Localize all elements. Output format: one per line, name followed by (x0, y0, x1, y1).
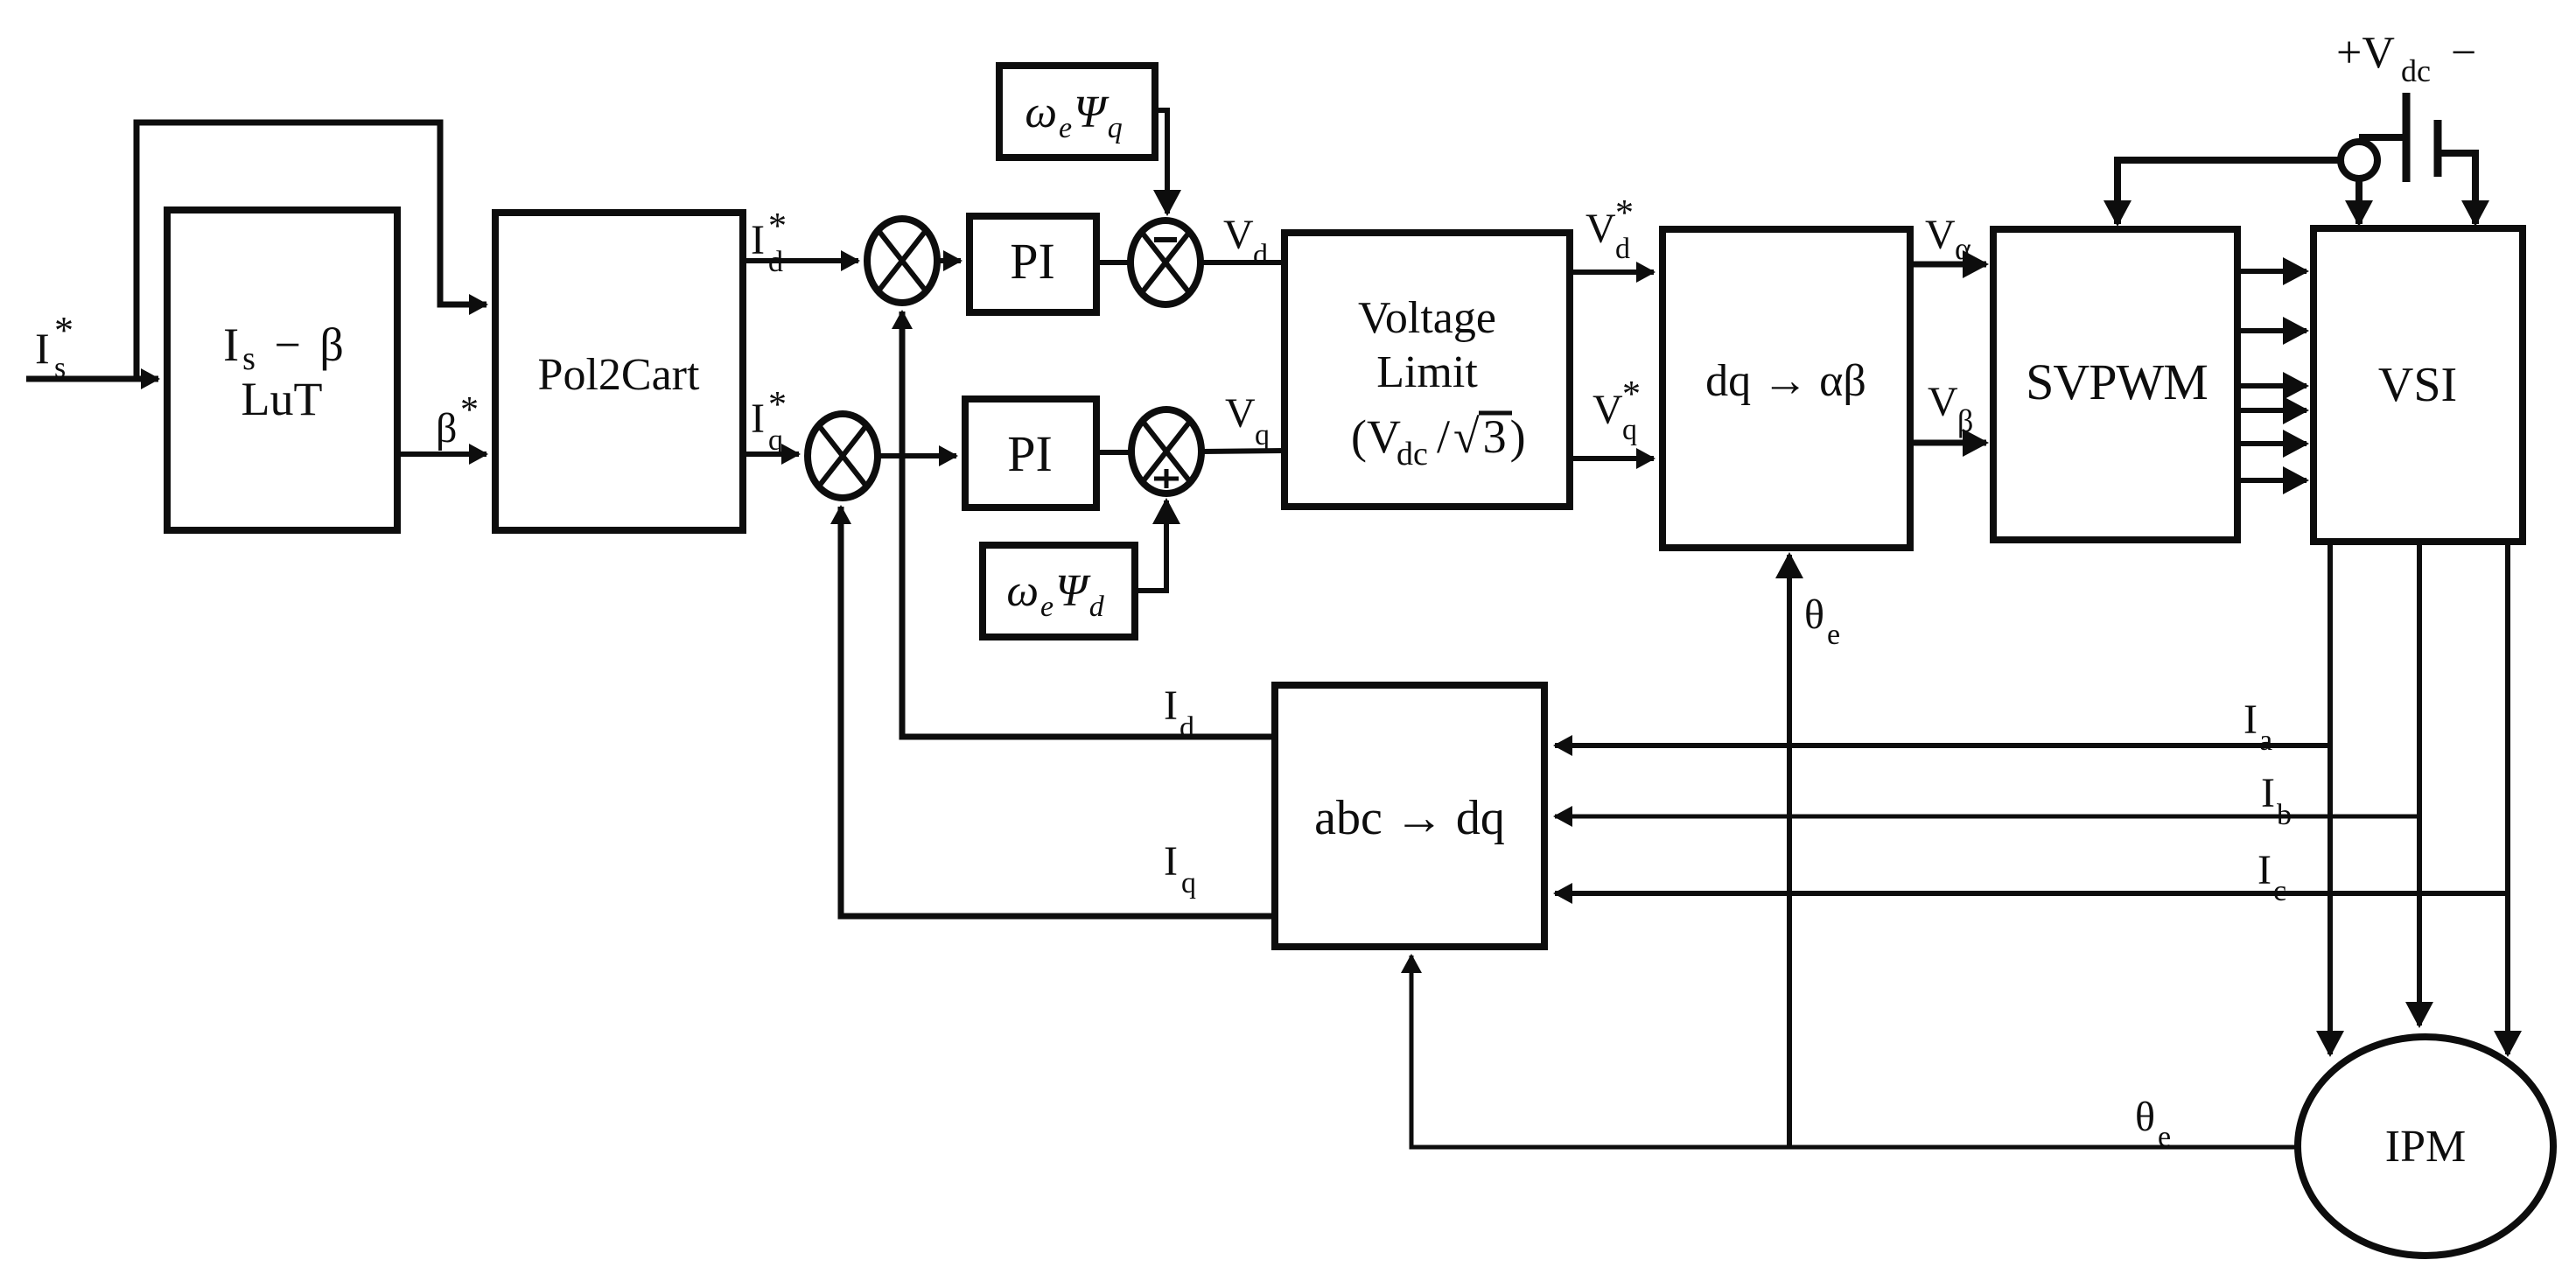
svg-text:θ: θ (1804, 591, 1824, 638)
svg-text:+V: +V (2336, 28, 2395, 78)
svg-text:*: * (460, 390, 479, 430)
svg-text:dc: dc (1396, 436, 1428, 472)
svg-text:θ: θ (2135, 1094, 2155, 1140)
svg-text:d: d (768, 246, 783, 278)
svg-text:I: I (751, 395, 765, 442)
svg-text:s: s (54, 352, 66, 384)
svg-text:q: q (1255, 419, 1270, 451)
svg-text:I: I (751, 217, 765, 263)
svg-text:d: d (1179, 711, 1194, 744)
svg-text:−: − (2451, 28, 2476, 78)
svg-text:I: I (1164, 682, 1178, 729)
svg-text:*: * (768, 206, 787, 247)
svg-text:V: V (1592, 387, 1623, 433)
svg-text:I: I (2257, 847, 2271, 893)
svg-text:q: q (1181, 867, 1196, 899)
svg-text:α: α (1955, 231, 1971, 266)
svg-text:d: d (1615, 233, 1630, 265)
svg-text:*: * (54, 309, 73, 352)
svg-text:d: d (1253, 239, 1268, 271)
svg-text:I: I (2261, 770, 2275, 816)
svg-text:*: * (768, 385, 787, 425)
svg-text:e: e (2158, 1121, 2171, 1153)
svg-text:(V: (V (1351, 410, 1401, 463)
svg-text:V: V (1223, 212, 1254, 258)
svg-text:*: * (1622, 374, 1641, 415)
svg-text:q: q (1622, 414, 1637, 446)
svg-text:PI: PI (1010, 233, 1055, 290)
svg-text:dq → αβ: dq → αβ (1705, 356, 1866, 406)
svg-text:abc → dq: abc → dq (1314, 791, 1505, 845)
svg-text:b: b (2277, 799, 2292, 831)
svg-text:LuT: LuT (241, 373, 323, 425)
svg-text:Is − β: Is − β (223, 318, 347, 377)
svg-text:e: e (1827, 619, 1840, 651)
svg-text:PI: PI (1007, 425, 1053, 482)
svg-text:q: q (768, 424, 783, 457)
svg-text:β: β (1957, 403, 1973, 438)
svg-text:I: I (35, 324, 50, 373)
svg-text:/√3): /√3) (1437, 410, 1529, 463)
svg-text:V: V (1928, 379, 1958, 425)
svg-text:Pol2Cart: Pol2Cart (538, 350, 700, 400)
svg-text:I: I (1164, 838, 1178, 885)
svg-text:Limit: Limit (1376, 347, 1478, 397)
svg-text:IPM: IPM (2385, 1122, 2466, 1172)
svg-text:V: V (1925, 212, 1956, 258)
svg-text:a: a (2259, 724, 2272, 757)
svg-text:VSI: VSI (2378, 358, 2457, 412)
svg-text:β: β (436, 405, 457, 451)
svg-text:Voltage: Voltage (1358, 293, 1496, 343)
svg-text:V: V (1225, 390, 1256, 437)
svg-text:dc: dc (2401, 53, 2431, 88)
svg-text:*: * (1615, 193, 1634, 234)
svg-text:I: I (2243, 696, 2257, 743)
svg-text:c: c (2273, 875, 2286, 907)
svg-text:SVPWM: SVPWM (2026, 353, 2208, 410)
svg-text:V: V (1585, 206, 1616, 252)
